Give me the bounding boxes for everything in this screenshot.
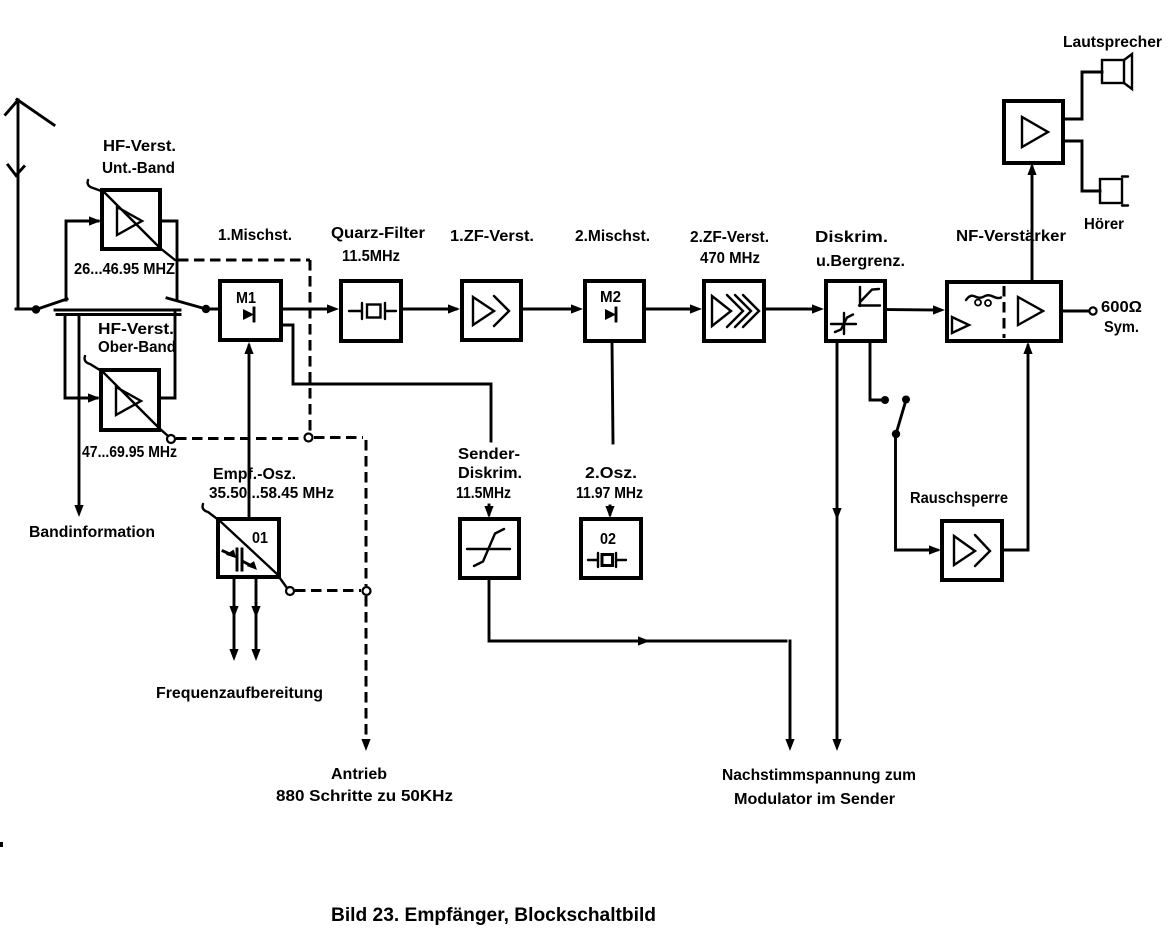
- svg-text:Rauschsperre: Rauschsperre: [910, 490, 1008, 507]
- wire to loudspeaker: [1063, 72, 1102, 119]
- amplifier 1.ZF-Verst: [462, 281, 521, 340]
- svg-text:NF-Verstärker: NF-Verstärker: [956, 228, 1066, 245]
- amplifier Rauschsperre: [942, 521, 1002, 580]
- wire lower amp output: [159, 313, 175, 398]
- svg-text:26...46.95 MHZ: 26...46.95 MHZ: [74, 261, 175, 278]
- divider dashed: [1003, 286, 1006, 338]
- amplifier 2.ZF-Verst: [704, 281, 764, 341]
- dashed vertical: [309, 260, 312, 431]
- mixer M1: [220, 281, 281, 340]
- svg-text:Empf.-Osz.: Empf.-Osz.: [213, 466, 296, 483]
- wire bandinformation: [78, 316, 81, 505]
- oscillator Empf-Osz block 01: [218, 519, 279, 577]
- dashed vertical to drive: [365, 440, 368, 586]
- svg-text:Quarz-Filter: Quarz-Filter: [331, 225, 425, 242]
- dashed down to Antrieb: [365, 596, 368, 738]
- svg-text:2.Osz.: 2.Osz.: [585, 465, 637, 482]
- earphone Hoerer: [1100, 177, 1128, 206]
- svg-text:Bild 23. Empfänger, Blockscha: Bild 23. Empfänger, Blockschaltbild: [331, 905, 656, 926]
- wire M1 tap to Sender-Diskrim: [281, 325, 491, 441]
- small triangle left: [952, 317, 969, 333]
- svg-text:Modulator im Sender: Modulator im Sender: [734, 791, 895, 808]
- svg-text:11.97 MHz: 11.97 MHz: [576, 485, 643, 502]
- svg-text:47...69.95 MHz: 47...69.95 MHz: [82, 444, 177, 461]
- wire to lower amp input: [65, 316, 97, 398]
- switch S2 output band select: [167, 298, 206, 309]
- amplifier speaker amp: [1004, 101, 1063, 163]
- svg-text:470 MHz: 470 MHz: [700, 250, 760, 267]
- svg-text:Diskrim.: Diskrim.: [458, 465, 522, 482]
- node open circle 01 gain: [286, 587, 294, 595]
- amplifier NF-Verstaerker block: [947, 282, 1061, 341]
- node output terminal: [1089, 307, 1096, 314]
- svg-text:35.50...58.45 MHz: 35.50...58.45 MHz: [209, 485, 334, 502]
- crystal with arrows symbol 01: [223, 548, 259, 570]
- crystal symbol 02: [588, 553, 626, 567]
- svg-text:Unt.-Band: Unt.-Band: [102, 160, 175, 177]
- wire NF to speaker amp: [1031, 167, 1034, 282]
- svg-text:u.Bergrenz.: u.Bergrenz.: [816, 253, 905, 270]
- node output junction: [202, 305, 210, 313]
- mixer M2: [585, 281, 644, 341]
- filter Quarz-Filter: [341, 281, 401, 341]
- antenna: [6, 100, 55, 310]
- discriminator u. limiter block: [826, 281, 885, 341]
- wire 1.ZF to M2: [521, 308, 578, 311]
- svg-text:M1: M1: [236, 290, 256, 307]
- switch S1 input band select: [36, 299, 67, 310]
- dashed from 01 circle: [295, 589, 361, 592]
- svg-text:2.Mischst.: 2.Mischst.: [575, 228, 650, 245]
- svg-text:2.ZF-Verst.: 2.ZF-Verst.: [690, 229, 769, 246]
- svg-text:11.5MHz: 11.5MHz: [342, 248, 400, 265]
- wire discriminator AFC line down: [836, 341, 839, 745]
- svg-text:02: 02: [600, 531, 616, 548]
- wire M2 to 2.Osz: [612, 341, 613, 443]
- oscillator 2.Osz block 02: [581, 519, 641, 578]
- node open circle lower amp gain: [167, 435, 175, 443]
- wire M1 to quartz filter: [281, 308, 334, 311]
- svg-text:Nachstimmspannung zum: Nachstimmspannung zum: [722, 767, 916, 784]
- wire NF output: [1061, 310, 1089, 313]
- svg-text:HF-Verst.: HF-Verst.: [103, 138, 176, 155]
- svg-text:Ober-Band: Ober-Band: [98, 339, 176, 356]
- wire Sender-Diskrim to Nachstimm: [489, 578, 786, 641]
- amplifier HF-Verst Unt.-Band: [102, 190, 160, 249]
- amplifier HF-Verst Ober-Band: [101, 370, 159, 430]
- wire switch to Rauschsperre: [896, 434, 938, 550]
- tuning line 01: [203, 504, 287, 588]
- svg-text:Lautsprecher: Lautsprecher: [1063, 34, 1162, 51]
- transformer squiggle: [966, 295, 1001, 306]
- wire to upper amp input: [66, 221, 98, 300]
- wire 2.ZF to discriminator: [764, 308, 819, 311]
- wire discriminator to squelch switch: [870, 341, 881, 400]
- svg-text:Hörer: Hörer: [1084, 216, 1124, 233]
- wire Rauschsperre to NF: [1002, 346, 1028, 550]
- discriminator Sender-Diskrim block: [460, 519, 519, 578]
- node input junction: [32, 305, 40, 313]
- node switch pivot: [892, 430, 900, 438]
- svg-text:M2: M2: [600, 289, 621, 306]
- node open circle dashed junction: [305, 434, 313, 442]
- svg-text:600Ω: 600Ω: [1101, 299, 1142, 316]
- wire upper amp output: [160, 221, 177, 299]
- svg-text:880 Schritte zu 50KHz: 880 Schritte zu 50KHz: [276, 788, 453, 805]
- wire discriminator to NF: [885, 308, 940, 311]
- node switch terminal B: [902, 396, 910, 404]
- svg-text:Sym.: Sym.: [1104, 319, 1139, 336]
- svg-text:Diskrim.: Diskrim.: [815, 229, 888, 246]
- node switch terminal A: [881, 396, 889, 404]
- speck: [0, 842, 3, 847]
- gain line lower amp: [85, 356, 168, 436]
- wire M2 to 2.ZF: [644, 308, 697, 311]
- wire quartz to 1.ZF: [401, 308, 456, 311]
- dashed control upper amp to tuner: [178, 259, 310, 262]
- dashed horizontal lower: [176, 438, 363, 439]
- wire Empf-Osz to M1: [248, 346, 251, 519]
- svg-text:11.5MHz: 11.5MHz: [456, 485, 511, 502]
- wire antenna to input node: [16, 308, 36, 311]
- wire to earphone: [1063, 141, 1100, 191]
- node open circle drive junction: [363, 587, 371, 595]
- svg-text:1.Mischst.: 1.Mischst.: [218, 227, 292, 244]
- wire band bus lower: [57, 313, 180, 316]
- wire band bus upper: [55, 309, 180, 312]
- svg-text:HF-Verst.: HF-Verst.: [98, 321, 174, 338]
- svg-text:Antrieb: Antrieb: [331, 766, 387, 783]
- wire 01 outputs to Frequenzaufbereitung: [233, 577, 236, 650]
- switch S3 squelch: [896, 400, 906, 434]
- wire to M1: [206, 308, 220, 311]
- svg-text:Sender-: Sender-: [458, 446, 520, 463]
- triangle right: [1018, 297, 1043, 325]
- svg-text:Frequenzaufbereitung: Frequenzaufbereitung: [156, 685, 323, 702]
- loudspeaker: [1102, 54, 1132, 89]
- svg-text:1.ZF-Verst.: 1.ZF-Verst.: [450, 228, 534, 245]
- svg-text:Bandinformation: Bandinformation: [29, 524, 155, 541]
- crystal symbol: [349, 303, 396, 319]
- gain line upper amp: [88, 180, 175, 260]
- svg-text:01: 01: [252, 530, 268, 547]
